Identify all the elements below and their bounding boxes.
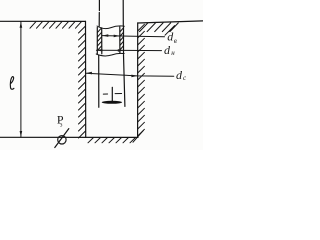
svg-text:d: d: [164, 43, 171, 57]
arrowhead d_v left: [102, 34, 108, 37]
top break (wavy) line of pipe section: [97, 26, 124, 29]
hatching under top-right surface: [140, 23, 179, 35]
slash of diameter symbol: [55, 129, 69, 148]
bottom break (wavy) line of pipe section: [96, 53, 124, 56]
label d_c: [176, 68, 187, 82]
agitator crossbar right: [115, 93, 122, 95]
pipe inner-right wall in section: [119, 27, 121, 54]
agitator blade (filled): [102, 101, 122, 104]
label d_n: [164, 43, 175, 57]
arrowhead l bottom: [20, 131, 23, 137]
label P1: [57, 112, 64, 128]
arrowhead d_n right: [118, 49, 124, 52]
agitator shaft: [111, 87, 113, 102]
corner hatch bottom-right: [133, 130, 144, 142]
well right wall: [137, 23, 139, 137]
pipe inner-left wall in section: [101, 28, 103, 54]
arrowhead d_n left: [96, 49, 102, 52]
svg-text:н: н: [171, 49, 175, 57]
label d_v: [167, 30, 177, 45]
svg-text:в: в: [174, 37, 177, 45]
hatching under well bottom: [88, 138, 136, 143]
ground surface line top-left: [0, 20, 86, 22]
label l (script ell), drawn as path: [10, 77, 14, 90]
pipe outer-right wall below break: [124, 55, 125, 107]
diameter symbol circle: [58, 136, 66, 144]
bottom ground line: [0, 136, 138, 138]
well left wall: [85, 21, 87, 137]
dimension line d_n: [96, 49, 161, 51]
arrowhead d_c right: [131, 75, 137, 78]
dimension line d_c: [86, 73, 174, 76]
dimension line d_v: [102, 36, 164, 37]
pipe outer-left wall below break: [98, 55, 100, 107]
agitator crossbar left: [103, 93, 107, 95]
hatching on well left wall: [79, 26, 86, 138]
svg-text:з: з: [60, 121, 63, 128]
pipe outer-right wall in section: [123, 26, 125, 53]
hatching of right pipe wall section: [120, 28, 124, 50]
pipe outer-left wall above break: [98, 0, 100, 26]
pipe outer-left wall in section: [96, 28, 98, 54]
hatching on well right wall: [133, 24, 144, 142]
svg-text:d: d: [176, 68, 183, 82]
arrowhead d_c left: [86, 72, 92, 75]
pipe outer-right wall above break: [122, 0, 124, 26]
hatching of left pipe wall section: [97, 28, 101, 51]
arrowhead l top: [20, 22, 23, 28]
dimension line l (vertical): [20, 22, 22, 138]
arrowhead d_v right: [114, 35, 120, 38]
hatching under top-left surface: [30, 22, 82, 29]
ground surface line top-right: [138, 21, 203, 23]
